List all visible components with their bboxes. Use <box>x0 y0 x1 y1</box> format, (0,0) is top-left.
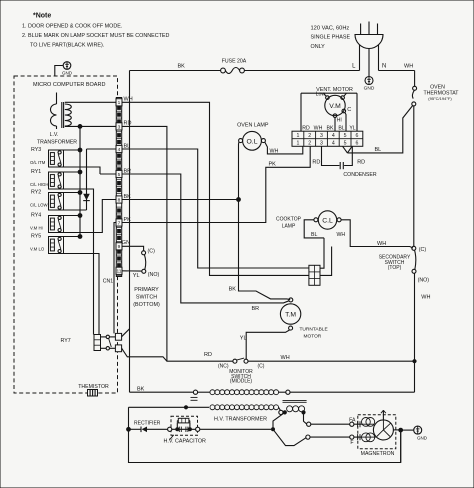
svg-text:7: 7 <box>118 220 121 226</box>
svg-text:(NC): (NC) <box>218 364 229 370</box>
svg-text:C: C <box>347 107 351 113</box>
svg-text:9: 9 <box>118 244 121 250</box>
svg-text:BR: BR <box>252 306 260 312</box>
svg-text:V.M LO: V.M LO <box>30 247 45 252</box>
svg-text:FUSE 20A: FUSE 20A <box>222 59 247 65</box>
svg-text:PK: PK <box>269 162 277 168</box>
svg-text:5: 5 <box>344 141 347 147</box>
svg-text:WH: WH <box>377 241 386 247</box>
svg-text:PRIMARY: PRIMARY <box>134 287 159 293</box>
svg-text:*Note: *Note <box>33 13 51 20</box>
svg-text:YL: YL <box>240 336 247 342</box>
svg-text:1: 1 <box>118 100 121 106</box>
svg-text:4: 4 <box>332 133 335 139</box>
svg-text:BL: BL <box>338 126 344 132</box>
svg-text:COOKTOP: COOKTOP <box>276 216 302 222</box>
svg-text:TRANSFORMER: TRANSFORMER <box>37 140 77 146</box>
svg-text:WH: WH <box>270 148 279 154</box>
svg-text:BL: BL <box>375 147 382 153</box>
svg-text:WH: WH <box>314 126 323 132</box>
svg-text:F: F <box>350 440 353 446</box>
svg-text:ONLY: ONLY <box>311 44 326 50</box>
svg-text:SWITCH: SWITCH <box>136 295 157 301</box>
svg-text:MOTOR: MOTOR <box>304 333 322 339</box>
svg-text:(MIDDLE): (MIDDLE) <box>230 379 253 385</box>
svg-text:BL: BL <box>311 232 317 238</box>
svg-text:L.V.: L.V. <box>50 132 59 138</box>
svg-text:1: 1 <box>296 133 299 139</box>
svg-text:5: 5 <box>344 133 347 139</box>
svg-text:RD: RD <box>357 160 365 166</box>
svg-text:(C): (C) <box>258 364 265 370</box>
svg-text:1. DOOR OPENED & COOK OFF MODE: 1. DOOR OPENED & COOK OFF MODE. <box>22 23 122 29</box>
svg-text:GND: GND <box>417 436 428 441</box>
svg-text:2: 2 <box>308 133 311 139</box>
svg-text:MICRO COMPUTER BOARD: MICRO COMPUTER BOARD <box>33 82 105 88</box>
svg-text:FA: FA <box>349 418 356 424</box>
svg-text:(C): (C) <box>148 249 156 255</box>
svg-text:(95°C/194°F): (95°C/194°F) <box>428 96 452 101</box>
svg-text:6: 6 <box>355 133 358 139</box>
svg-text:RD: RD <box>124 121 132 127</box>
svg-text:CONDENSER: CONDENSER <box>343 172 376 178</box>
svg-text:3: 3 <box>320 133 323 139</box>
svg-text:O.L: O.L <box>247 138 258 145</box>
svg-text:GND: GND <box>364 86 375 92</box>
svg-text:RD: RD <box>312 160 320 166</box>
svg-text:6: 6 <box>355 141 358 147</box>
svg-text:RY1: RY1 <box>31 169 41 175</box>
svg-text:RECTIFIER: RECTIFIER <box>134 420 161 426</box>
svg-text:2: 2 <box>308 141 311 147</box>
svg-text:RY4: RY4 <box>31 213 41 219</box>
svg-text:WH: WH <box>281 355 290 361</box>
svg-text:RY7: RY7 <box>61 338 71 344</box>
svg-text:(BOTTOM): (BOTTOM) <box>133 302 160 308</box>
svg-text:O/L ITM: O/L ITM <box>30 160 46 165</box>
svg-text:2. BLUE MARK ON LAMP SOCKET MU: 2. BLUE MARK ON LAMP SOCKET MUST BE CONN… <box>22 33 169 39</box>
svg-text:RY5: RY5 <box>31 234 41 240</box>
svg-text:N: N <box>382 64 386 70</box>
svg-text:WH: WH <box>404 63 413 69</box>
svg-text:C.L: C.L <box>322 218 333 225</box>
svg-text:TURNTABLE: TURNTABLE <box>300 327 328 333</box>
svg-text:OVEN LAMP: OVEN LAMP <box>237 123 269 129</box>
svg-text:BK: BK <box>178 63 186 69</box>
svg-text:8: 8 <box>118 197 121 203</box>
svg-text:RD: RD <box>204 352 212 358</box>
svg-text:(C): (C) <box>419 247 427 253</box>
svg-text:RY2: RY2 <box>31 190 41 196</box>
svg-text:T.M: T.M <box>285 312 296 319</box>
svg-text:(NO): (NO) <box>148 272 160 278</box>
svg-text:LAMP: LAMP <box>282 223 296 229</box>
svg-text:YL: YL <box>349 126 355 132</box>
svg-text:V.M: V.M <box>329 103 341 110</box>
svg-text:C/L HIGH: C/L HIGH <box>30 182 48 187</box>
svg-text:BK: BK <box>137 386 145 392</box>
svg-text:TO LIVE PART(BLACK WIRE).: TO LIVE PART(BLACK WIRE). <box>30 42 104 48</box>
svg-text:3: 3 <box>118 124 121 130</box>
svg-text:5: 5 <box>118 172 121 178</box>
svg-text:3: 3 <box>320 141 323 147</box>
svg-text:4: 4 <box>332 141 335 147</box>
svg-text:BK: BK <box>229 287 237 293</box>
svg-text:WH: WH <box>337 232 346 238</box>
svg-text:BK: BK <box>327 126 334 132</box>
svg-text:THEMISTOR: THEMISTOR <box>78 384 109 390</box>
svg-text:C/L LOW: C/L LOW <box>30 203 48 208</box>
svg-text:4: 4 <box>118 147 121 153</box>
svg-text:YL: YL <box>133 273 140 279</box>
svg-text:V.M HI: V.M HI <box>30 226 43 231</box>
svg-text:H.V. TRANSFORMER: H.V. TRANSFORMER <box>214 417 267 423</box>
svg-text:(NO): (NO) <box>418 278 430 284</box>
svg-text:1: 1 <box>296 141 299 147</box>
svg-text:WH: WH <box>124 97 133 103</box>
svg-text:WH: WH <box>421 295 430 301</box>
svg-text:RD: RD <box>302 126 310 132</box>
svg-text:GN: GN <box>122 240 130 246</box>
svg-text:(TOP): (TOP) <box>388 265 402 271</box>
svg-text:CN1: CN1 <box>103 279 113 285</box>
svg-text:HI: HI <box>337 117 342 123</box>
svg-text:GND: GND <box>62 71 73 76</box>
svg-text:SINGLE PHASE: SINGLE PHASE <box>311 35 351 41</box>
svg-text:MAGNETRON: MAGNETRON <box>361 451 395 457</box>
svg-text:11: 11 <box>117 269 122 275</box>
svg-text:RY3: RY3 <box>31 147 41 153</box>
svg-text:120 VAC, 60Hz: 120 VAC, 60Hz <box>311 26 350 32</box>
